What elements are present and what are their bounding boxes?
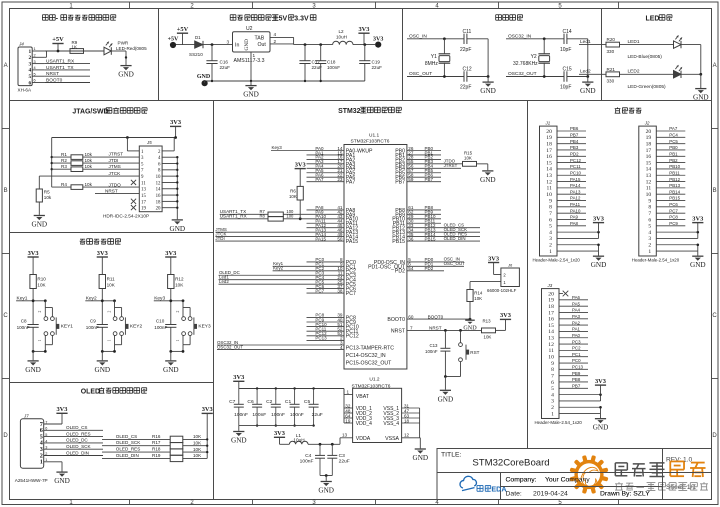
svg-text:A2541HWW-7P: A2541HWW-7P: [15, 478, 48, 483]
svg-text:1: 1: [176, 340, 180, 342]
svg-text:6: 6: [551, 380, 554, 386]
svg-text:100nF: 100nF: [17, 325, 30, 330]
ground U2: [250, 81, 252, 85]
ground J1: [593, 255, 604, 257]
regulator U2 AMS1117-3.3: [233, 32, 271, 52]
svg-text:3: 3: [648, 236, 651, 242]
power 3V3 OLED left: [56, 412, 67, 414]
svg-text:2: 2: [38, 311, 42, 313]
svg-text:VDD_4: VDD_4: [356, 421, 372, 427]
svg-text:1: 1: [551, 411, 554, 417]
junction R6 PA10: [299, 217, 302, 220]
svg-text:R4: R4: [61, 182, 67, 187]
J3 pin 9 net PC0: [559, 362, 588, 364]
svg-text:23: 23: [337, 177, 343, 182]
svg-text:14: 14: [546, 167, 552, 173]
svg-text:C: C: [3, 313, 8, 319]
J3 pin 10 net PC1: [559, 356, 588, 358]
svg-text:1: 1: [253, 53, 256, 58]
svg-text:PB7: PB7: [425, 177, 434, 182]
no-connect X pin19: [131, 205, 136, 210]
svg-text:10K: 10K: [474, 296, 482, 301]
svg-text:9: 9: [551, 361, 554, 367]
svg-text:15: 15: [548, 323, 554, 329]
svg-text:12: 12: [404, 433, 410, 438]
svg-text:GND: GND: [243, 91, 259, 99]
ground BOOT0: [465, 319, 475, 321]
J1 pin 14 net PC11: [557, 168, 586, 170]
U1.1 PB13 row: [407, 231, 480, 233]
watermark gear logo: [570, 455, 609, 494]
U1.1 PA4 row: [307, 167, 345, 169]
U1.2 VDD_4 VSS_4 row: [344, 422, 353, 424]
svg-text:PC7: PC7: [346, 291, 356, 297]
svg-text:SS210: SS210: [189, 52, 203, 57]
svg-text:C5: C5: [304, 399, 311, 405]
svg-text:+5V: +5V: [168, 37, 179, 43]
svg-text:38: 38: [337, 288, 343, 293]
svg-text:1: 1: [648, 249, 651, 255]
net USART1_TX: [44, 69, 90, 71]
U1.2 VDD_2 VSS_2 row: [344, 412, 353, 414]
cap rail: [587, 39, 589, 77]
svg-text:10: 10: [156, 175, 161, 180]
svg-text:PA15: PA15: [570, 177, 581, 182]
LED LED1 LED-Blue(0805): [674, 41, 682, 48]
svg-text:U1.1: U1.1: [369, 133, 379, 139]
svg-text:+5V: +5V: [177, 26, 189, 33]
svg-text:4: 4: [340, 345, 343, 350]
capacitor C16 22uF: [211, 45, 213, 61]
svg-text:100nF: 100nF: [425, 349, 438, 354]
svg-text:GND: GND: [693, 94, 709, 102]
svg-text:PC13-TAMPER-RTC: PC13-TAMPER-RTC: [346, 346, 394, 352]
connector J3 Header-Male-2.54 1x20: [542, 289, 560, 419]
junction OSC32_IN: [543, 37, 546, 40]
svg-text:3: 3: [28, 61, 31, 67]
U1.2 VDD_3 VSS_3 row: [344, 417, 353, 419]
svg-text:VSS_4: VSS_4: [383, 421, 399, 427]
svg-text:Led2: Led2: [580, 69, 591, 75]
U1.1 PA8 row: [307, 209, 345, 211]
svg-text:AMS1117-3.3: AMS1117-3.3: [234, 58, 265, 64]
U1.2 VDD rail: [343, 389, 345, 424]
svg-text:PB1: PB1: [669, 151, 678, 156]
svg-text:PB8: PB8: [572, 377, 581, 382]
svg-text:GND: GND: [32, 221, 48, 229]
J3 pin 4 3V3: [559, 394, 601, 396]
J2 pin 1 GND: [656, 250, 698, 252]
svg-text:Y2: Y2: [531, 54, 537, 60]
power 3V3 Key1: [28, 256, 39, 258]
svg-text:PA1: PA1: [572, 327, 581, 332]
RST bottom wire: [445, 376, 460, 378]
svg-text:2: 2: [274, 39, 277, 44]
J1 pin 20 net PB6: [557, 130, 586, 132]
U1.1 PA15 row JTDI: [215, 240, 344, 242]
J2 pin 10 net PB14: [656, 193, 685, 195]
svg-text:10K: 10K: [175, 282, 184, 287]
svg-text:5: 5: [549, 224, 552, 230]
svg-text:330: 330: [607, 79, 615, 84]
svg-text:10: 10: [548, 355, 554, 361]
title crystal section: [496, 14, 502, 16]
resistor R11 10K: [99, 275, 105, 289]
svg-text:6: 6: [549, 217, 552, 223]
J2 3V3 rail: [697, 232, 699, 238]
svg-text:100nF: 100nF: [234, 412, 248, 418]
svg-text:J5: J5: [146, 140, 152, 145]
svg-text:7: 7: [410, 326, 413, 331]
svg-text:GND: GND: [580, 87, 596, 95]
J2 pin 12 net PB12: [656, 181, 685, 183]
svg-text:13: 13: [548, 336, 554, 342]
svg-text:1: 1: [347, 390, 350, 395]
crystal Y1 8MHz: [443, 39, 445, 54]
U1.1 PC11 row: [307, 330, 345, 332]
U1.1 PA2 row: [307, 158, 345, 160]
netport 3V3 out: [375, 42, 381, 48]
junction C16: [211, 43, 214, 46]
svg-text:In: In: [235, 42, 239, 48]
svg-text:Out: Out: [258, 42, 267, 48]
U1.1 PC4 row: [307, 279, 345, 281]
svg-text:OLED: OLED: [81, 389, 100, 396]
svg-text:17: 17: [646, 148, 652, 154]
microcontroller U1.2 STM32F103RCT6 power pins: [353, 388, 402, 442]
title comm section: [42, 14, 48, 16]
svg-text:GND: GND: [25, 366, 41, 374]
svg-text:4: 4: [28, 68, 31, 74]
svg-text:BOOT0: BOOT0: [387, 317, 405, 323]
U1.2 VDD_1 VSS_1 row: [344, 407, 353, 409]
junction rail: [586, 75, 589, 78]
svg-text:JTMS: JTMS: [109, 164, 121, 169]
J1 pin 3 3V3: [557, 237, 599, 239]
svg-text:OLED_RES: OLED_RES: [66, 431, 91, 436]
connector J7 A2541HWW-7P: [20, 419, 43, 469]
resistor R13 10K to 3V3: [482, 328, 496, 333]
inductor L2 10uH: [333, 41, 353, 44]
U1.1 PC0 row: [307, 261, 345, 263]
svg-text:15: 15: [646, 160, 652, 166]
svg-text:OLED_DC: OLED_DC: [66, 438, 88, 443]
J2 pin 5 net PC9: [656, 225, 685, 227]
svg-text:PD2: PD2: [570, 151, 579, 156]
U1.1 PA12 row: [307, 227, 345, 229]
svg-text:3: 3: [549, 236, 552, 242]
svg-text:10K: 10K: [193, 453, 202, 458]
svg-text:12: 12: [546, 179, 552, 185]
svg-text:JTCK: JTCK: [109, 171, 122, 176]
watermark text line1: [614, 463, 616, 476]
svg-text:15: 15: [546, 160, 552, 166]
svg-text:3V3: 3V3: [56, 406, 67, 413]
capacitor C1 100nF: [293, 387, 295, 389]
svg-text:PC13: PC13: [315, 336, 327, 341]
svg-text:Company:: Company:: [506, 477, 537, 484]
svg-text:3V3: 3V3: [373, 36, 383, 42]
svg-text:R17: R17: [152, 440, 161, 445]
capacitor C18 100nF: [320, 45, 322, 61]
J3 pin 6 net PB8: [559, 381, 588, 383]
connector J2 Header-Male-2.54 1x20: [639, 126, 657, 256]
net OLED_RES J7: [62, 436, 103, 438]
power +5V comm: [52, 43, 63, 45]
svg-text:NRST: NRST: [391, 328, 406, 334]
J3 pin 14 net PA1: [559, 330, 588, 332]
svg-text:20: 20: [546, 129, 552, 135]
J2 gnd rail: [697, 245, 699, 251]
ground LED: [700, 74, 702, 88]
svg-text:PC4: PC4: [669, 133, 678, 138]
svg-text:PA7: PA7: [315, 177, 324, 182]
J3 pin 16 net PA3: [559, 318, 588, 320]
svg-text:13: 13: [646, 173, 652, 179]
svg-text:11: 11: [646, 186, 652, 192]
J5 right rail to 3V3 pin2: [162, 150, 175, 152]
J2 pin 11 net PB13: [656, 187, 685, 189]
capacitor C17 22uF: [304, 45, 306, 61]
svg-text:C10: C10: [156, 319, 165, 324]
svg-text:3V3: 3V3: [165, 250, 176, 257]
svg-text:C2: C2: [266, 399, 273, 405]
junction C17: [304, 43, 307, 46]
svg-text:100nF: 100nF: [252, 412, 266, 418]
svg-text:GND: GND: [480, 176, 496, 184]
svg-text:OSC_OUT: OSC_OUT: [444, 261, 466, 266]
U1.1 PA13 row JTMS: [215, 231, 344, 233]
svg-text:C6: C6: [247, 399, 254, 405]
J1 pin 5 net PA8: [557, 225, 586, 227]
svg-text:3V3: 3V3: [170, 119, 181, 126]
inductor L1 10uH: [289, 441, 308, 444]
svg-text:A: A: [713, 63, 717, 69]
svg-text:100nF: 100nF: [154, 325, 167, 330]
svg-text:32.768KHz: 32.768KHz: [513, 61, 538, 67]
svg-text:1: 1: [107, 340, 111, 342]
svg-text:10K: 10K: [464, 155, 472, 160]
svg-text:15: 15: [141, 194, 146, 199]
svg-text:LED-Red(0805: LED-Red(0805: [116, 46, 147, 51]
svg-text:Key3: Key3: [272, 145, 283, 150]
U1.1 PC3 row: [307, 274, 345, 276]
svg-text:C13: C13: [429, 343, 438, 348]
svg-text:3V3: 3V3: [233, 374, 244, 381]
J1 3V3 rail: [598, 232, 600, 238]
svg-text:TAB: TAB: [255, 35, 265, 41]
U1.1 PA11 row: [307, 222, 345, 224]
junction LED gnd: [125, 56, 127, 58]
svg-text:PC7: PC7: [669, 208, 678, 213]
svg-text:10k: 10k: [85, 164, 93, 169]
svg-text:5: 5: [551, 386, 554, 392]
svg-text:RST: RST: [470, 350, 479, 355]
svg-text:13: 13: [141, 188, 146, 193]
svg-text:10k: 10k: [85, 158, 93, 163]
ground J5: [172, 219, 183, 221]
connector J5 HDR-IDC-2.54-2X10P: [139, 146, 162, 212]
svg-text:16: 16: [548, 317, 554, 323]
ground KEY2: [101, 351, 103, 360]
U1.1 PA0 row with Key3: [271, 150, 344, 152]
power 3V3 OLED right: [202, 412, 213, 414]
cap bank top rail: [239, 388, 344, 390]
J3 pin20 no connect: [559, 293, 563, 295]
svg-text:22pF: 22pF: [460, 85, 471, 91]
U1.2 VBAT pin 1: [344, 394, 353, 396]
power gnd rail: [205, 80, 365, 82]
ground J3: [595, 418, 606, 420]
svg-text:1: 1: [40, 459, 43, 466]
svg-text:36: 36: [408, 236, 414, 241]
U1.1 PD1 row OSC_OUT: [407, 265, 464, 267]
svg-text:18: 18: [646, 141, 652, 147]
svg-text:Led2: Led2: [219, 279, 229, 284]
U1.2 VSS rail: [419, 408, 421, 438]
J2 pin 14 net PB10: [656, 168, 685, 170]
svg-text:10K: 10K: [193, 447, 202, 452]
svg-text:12: 12: [156, 181, 161, 186]
key bottom wire KEY3: [171, 350, 183, 352]
J3 pin 7 net PB9: [559, 375, 588, 377]
J2 pin 20 net PA7: [656, 130, 685, 132]
svg-text:USART1_RX: USART1_RX: [220, 214, 247, 219]
svg-text:2: 2: [549, 243, 552, 249]
svg-text:PC7: PC7: [315, 288, 324, 293]
svg-text:18: 18: [404, 418, 410, 423]
power 3V3 Key2: [97, 256, 108, 258]
capacitor C2 100nF: [275, 387, 277, 389]
svg-text:KEY2: KEY2: [130, 324, 143, 330]
svg-text:GND: GND: [244, 39, 250, 51]
svg-text:22uF: 22uF: [220, 65, 231, 70]
J2 pin 3 3V3: [656, 237, 698, 239]
svg-text:VBAT: VBAT: [356, 394, 370, 400]
svg-text:C7: C7: [229, 399, 236, 405]
U1.1 PB7 row: [407, 181, 441, 183]
svg-text:17: 17: [141, 200, 146, 205]
svg-text:LED1: LED1: [628, 39, 640, 45]
junction LED gnd: [699, 73, 702, 76]
J1 pin 6 net PA9: [557, 218, 586, 220]
U1.1 PC2 row: [307, 270, 345, 272]
svg-text:GND: GND: [95, 366, 111, 374]
svg-text:OLED_CS: OLED_CS: [116, 434, 137, 439]
title block dividers: [437, 472, 712, 474]
svg-text:PC10: PC10: [570, 170, 582, 175]
svg-text:R3: R3: [61, 164, 67, 169]
svg-text:330: 330: [607, 49, 615, 54]
svg-text:14: 14: [156, 188, 161, 193]
svg-text:PA6: PA6: [572, 295, 581, 300]
C3 C4 gnd rail: [320, 475, 332, 477]
J2 pin 9 net PB15: [656, 200, 685, 202]
ground KEY3: [170, 351, 172, 360]
svg-text:7: 7: [551, 373, 554, 379]
key bottom wire KEY1: [33, 350, 45, 352]
svg-text:12: 12: [548, 342, 554, 348]
ground KEY1: [32, 351, 34, 360]
svg-text:BOOT0: BOOT0: [428, 314, 444, 319]
pullup resistors R1 R2 R3 10k: [51, 156, 53, 158]
junction OSC_OUT: [443, 75, 446, 78]
svg-text:59: 59: [408, 177, 414, 182]
svg-text:USART1_TX: USART1_TX: [46, 65, 74, 71]
svg-text:HDR-IDC-2.54-2X10P: HDR-IDC-2.54-2X10P: [103, 213, 149, 218]
svg-text:J1: J1: [545, 121, 551, 126]
svg-text:10: 10: [546, 192, 552, 198]
svg-text:3V3: 3V3: [28, 250, 39, 257]
svg-text:GND: GND: [231, 437, 247, 445]
capacitor C14 10pF: [563, 34, 565, 44]
J2 pin 13 net PB11: [656, 174, 685, 176]
svg-text:PC14-OSC32_IN: PC14-OSC32_IN: [346, 353, 386, 359]
svg-text:PB4: PB4: [570, 139, 579, 144]
svg-text:PC9: PC9: [669, 221, 678, 226]
svg-text:PB15: PB15: [392, 239, 405, 245]
J1 pin 9 net PA12: [557, 200, 586, 202]
J1 pin 16 net PD2: [557, 155, 586, 157]
svg-text:Key2: Key2: [273, 266, 284, 271]
J1 pin 19 net PB7: [557, 136, 586, 138]
svg-text:3V3: 3V3: [274, 430, 285, 437]
svg-text:JTDO: JTDO: [109, 182, 122, 187]
J1 pin 1 GND: [557, 250, 599, 252]
svg-text:JTRST: JTRST: [109, 152, 124, 157]
net BOOT0 comm: [44, 82, 90, 84]
J3 pin 15 net PA2: [559, 324, 588, 326]
svg-text:PA8: PA8: [570, 221, 579, 226]
svg-text:PC8: PC8: [669, 215, 678, 220]
svg-text:PB10: PB10: [669, 164, 680, 169]
capacitor C19 22uF: [364, 45, 366, 61]
svg-text:10k: 10k: [85, 182, 93, 187]
svg-text:100nF: 100nF: [86, 325, 99, 330]
svg-text:PB9: PB9: [572, 371, 581, 376]
U1.1 NRST pin 7: [407, 329, 482, 331]
svg-text:PA7: PA7: [346, 180, 356, 186]
capacitor C15 10pF: [563, 71, 565, 81]
svg-text:PC15-OSC32_OUT: PC15-OSC32_OUT: [346, 360, 392, 366]
svg-text:7: 7: [648, 211, 651, 217]
svg-text:J2: J2: [644, 121, 650, 126]
resistor R21 330: [606, 72, 620, 77]
svg-text:4: 4: [551, 392, 554, 398]
svg-text:STM32F103RCT6: STM32F103RCT6: [351, 139, 390, 145]
svg-text:R14: R14: [474, 290, 483, 295]
power 3V3 Key3: [165, 256, 176, 258]
junction OSC_IN: [443, 37, 446, 40]
svg-text:10k: 10k: [44, 195, 52, 200]
svg-text:9: 9: [648, 198, 651, 204]
microcontroller U1.1 STM32F103RCT6: [344, 145, 407, 370]
svg-text:17: 17: [546, 148, 552, 154]
J1 pin 4 3V3: [557, 231, 599, 233]
svg-text:PWR: PWR: [118, 40, 129, 45]
svg-text:Header-Male-2.54_1x20: Header-Male-2.54_1x20: [533, 258, 581, 263]
svg-text:PB12: PB12: [669, 177, 680, 182]
svg-text:3V3: 3V3: [593, 216, 604, 223]
diode D1 SS210: [195, 41, 203, 48]
J1 pin 18 net PB4: [557, 143, 586, 145]
svg-text:PB3: PB3: [570, 145, 579, 150]
capacitor C11 22pF: [463, 34, 465, 44]
svg-text:LED-Blue(0805): LED-Blue(0805): [628, 54, 663, 60]
svg-text:D1: D1: [195, 35, 201, 40]
svg-text:BOOT0: BOOT0: [46, 78, 63, 84]
svg-text:Y1: Y1: [431, 54, 437, 60]
